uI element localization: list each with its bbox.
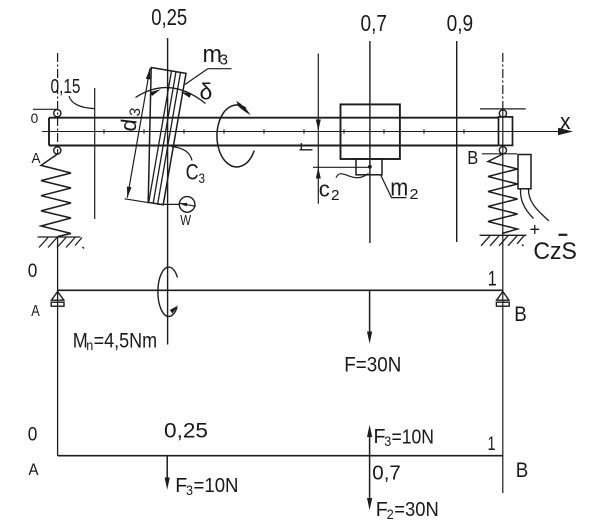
right journal block: [499, 117, 513, 145]
W circle: [179, 197, 195, 213]
label F2=30N: [376, 499, 439, 522]
svg-text:c: c: [319, 177, 330, 202]
d3 dimension line: [127, 68, 150, 197]
svg-text:2: 2: [410, 186, 419, 203]
svg-text:A: A: [32, 150, 41, 167]
svg-text:0: 0: [28, 425, 38, 446]
left edge line between diagrams: [57, 237, 59, 456]
svg-text:2: 2: [387, 506, 394, 522]
svg-text:3: 3: [126, 107, 144, 117]
bearing A vertical line: [57, 53, 59, 154]
bearing A top circle: [54, 110, 61, 117]
W connector line: [158, 203, 180, 205]
c2 squiggle leader: [336, 174, 369, 178]
svg-text:0: 0: [28, 261, 38, 282]
svg-text:x: x: [560, 109, 571, 134]
c2 arrowhead down: [316, 120, 321, 131]
x axis arrowhead: [558, 128, 573, 135]
bottom beam: [58, 455, 503, 457]
svg-text:2: 2: [331, 187, 340, 204]
svg-text:0,9: 0,9: [447, 10, 474, 36]
label CzS macron: [559, 234, 568, 236]
shaft rotation ellipse: [217, 105, 254, 167]
svg-text:A: A: [31, 303, 40, 320]
svg-text:3: 3: [186, 482, 193, 498]
bearing B bottom circle: [499, 147, 506, 154]
station line 0,25: [167, 38, 169, 345]
d3 arrowhead bottom: [127, 187, 132, 198]
delta arc: [136, 88, 206, 104]
bearing A bottom circle: [54, 147, 61, 154]
label c2: [319, 177, 340, 204]
c2 reference line: [313, 166, 370, 168]
station line 0,7: [369, 41, 371, 243]
leader 0,15: [69, 96, 94, 109]
svg-text:B: B: [467, 148, 478, 168]
bearing B reference line: [480, 108, 526, 110]
svg-text:1: 1: [488, 434, 496, 455]
svg-text:0,15: 0,15: [51, 76, 81, 98]
delta arrowhead right: [180, 92, 191, 98]
svg-text:W: W: [180, 212, 191, 229]
support A triangle: [51, 292, 63, 301]
svg-text:d: d: [115, 118, 141, 133]
label F3=10N at 0,7: [374, 426, 435, 449]
sensor CzS box: [518, 155, 531, 189]
force F3 left arrowhead: [165, 478, 170, 490]
svg-text:=30N: =30N: [394, 499, 439, 521]
support B triangle: [497, 292, 509, 301]
mass m2 block: [341, 104, 400, 159]
disk m3 outline: [148, 68, 186, 205]
force double arrow line at 0,7: [369, 432, 371, 503]
svg-text:F=30N: F=30N: [344, 354, 401, 377]
svg-text:0,25: 0,25: [164, 420, 208, 443]
svg-text:C: C: [186, 160, 199, 185]
r tick mark: [300, 143, 313, 150]
svg-text:0,7: 0,7: [372, 463, 401, 485]
d3 bottom extension line: [125, 199, 150, 203]
support B base: [496, 302, 509, 306]
m3 leader shelf: [208, 68, 232, 70]
force F2 down arrowhead: [367, 498, 372, 510]
label Mn=4,5Nm: [73, 330, 157, 354]
svg-text:B: B: [516, 459, 529, 482]
label d3 rotated: [115, 107, 144, 133]
svg-text:=4,5Nm: =4,5Nm: [94, 330, 158, 353]
moment arrowhead: [170, 305, 179, 313]
support A base: [51, 302, 64, 306]
force F3 left line: [166, 456, 168, 480]
svg-text:3: 3: [199, 170, 206, 186]
svg-text:B: B: [514, 303, 527, 326]
m2 small block: [356, 159, 382, 175]
svg-text:δ: δ: [200, 79, 213, 105]
svg-text:CzS: CzS: [533, 238, 577, 265]
sensor wire 1: [520, 189, 533, 219]
shaft centerline x-axis: [42, 131, 558, 133]
label m2: [390, 174, 418, 203]
label F3=10N bottom left: [175, 475, 238, 498]
bearing B top circle: [499, 110, 506, 117]
spring A: [41, 154, 71, 237]
svg-text:0: 0: [31, 110, 39, 126]
label m3: [203, 41, 229, 69]
W diameter line: [180, 203, 196, 206]
c2 dimension vertical line: [317, 54, 319, 204]
force F3 up arrowhead: [367, 425, 372, 437]
ground B: [480, 235, 527, 246]
station line 0,15: [94, 88, 96, 219]
m2 leader: [381, 175, 407, 198]
d3 arrowhead top: [146, 68, 151, 79]
shaft body: [49, 118, 499, 146]
svg-text:3: 3: [220, 52, 229, 69]
C3 leader: [171, 147, 192, 161]
disk m3 inner lines: [149, 71, 181, 204]
bearing A reference line: [33, 108, 58, 110]
svg-text:=10N: =10N: [392, 427, 435, 449]
moment ellipse: [158, 267, 178, 316]
svg-text:0,25: 0,25: [151, 4, 187, 30]
sensor wire 2: [528, 189, 548, 221]
force F=30N line: [369, 291, 371, 335]
delta arrowhead left: [150, 89, 161, 96]
c2 arrowhead up: [316, 168, 321, 179]
shaft rotation arrowhead: [236, 101, 251, 115]
svg-text:=10N: =10N: [194, 475, 239, 497]
projection line B vertical: [502, 53, 504, 110]
svg-text:A: A: [29, 460, 40, 479]
m3 leader diagonal: [185, 69, 208, 85]
spring B: [488, 154, 518, 234]
svg-text:+: +: [530, 220, 541, 240]
label C3: [186, 160, 206, 187]
svg-text:1: 1: [488, 267, 497, 290]
svg-text:3: 3: [384, 433, 391, 449]
force F=30N arrowhead: [367, 332, 372, 344]
svg-text:n: n: [86, 337, 93, 353]
spring B top line: [482, 153, 517, 155]
station line 0,9: [456, 41, 458, 242]
svg-text:0,7: 0,7: [361, 10, 388, 36]
middle beam: [58, 289, 503, 291]
ground A: [38, 237, 85, 249]
W arrowhead: [179, 203, 187, 207]
m2 center dot: [368, 165, 372, 169]
